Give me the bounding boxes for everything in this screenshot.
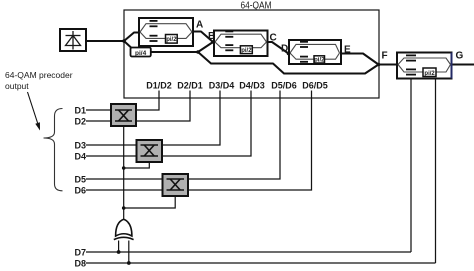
svg-text:D2: D2 [75, 116, 87, 126]
svg-text:D5/D6: D5/D6 [271, 81, 297, 91]
svg-text:64-QAM precoder: 64-QAM precoder [5, 70, 73, 80]
svg-text:D7: D7 [75, 247, 87, 257]
svg-text:output: output [5, 81, 29, 91]
svg-text:D3: D3 [75, 140, 87, 150]
svg-text:B: B [208, 31, 215, 42]
svg-text:D4/D3: D4/D3 [239, 81, 265, 91]
svg-text:D2/D1: D2/D1 [177, 81, 203, 91]
svg-text:F: F [382, 51, 388, 62]
svg-text:D4: D4 [75, 151, 87, 161]
svg-text:D6: D6 [75, 185, 87, 195]
svg-text:D6/D5: D6/D5 [302, 81, 328, 91]
svg-text:D3/D4: D3/D4 [209, 81, 235, 91]
svg-text:64-QAM: 64-QAM [241, 0, 272, 12]
svg-text:A: A [196, 20, 203, 31]
svg-text:D: D [281, 44, 288, 55]
svg-text:pi/2: pi/2 [314, 58, 325, 64]
svg-text:pi/2: pi/2 [424, 71, 435, 77]
svg-text:pi/2: pi/2 [241, 48, 252, 54]
svg-text:D1/D2: D1/D2 [146, 81, 172, 91]
svg-text:D8: D8 [75, 258, 87, 268]
svg-text:pi/4: pi/4 [135, 50, 147, 57]
svg-text:G: G [456, 51, 464, 62]
svg-text:C: C [270, 33, 277, 44]
svg-text:E: E [344, 45, 351, 56]
svg-text:pi/2: pi/2 [166, 37, 177, 43]
svg-text:D5: D5 [75, 174, 87, 184]
svg-text:D1: D1 [75, 105, 87, 115]
